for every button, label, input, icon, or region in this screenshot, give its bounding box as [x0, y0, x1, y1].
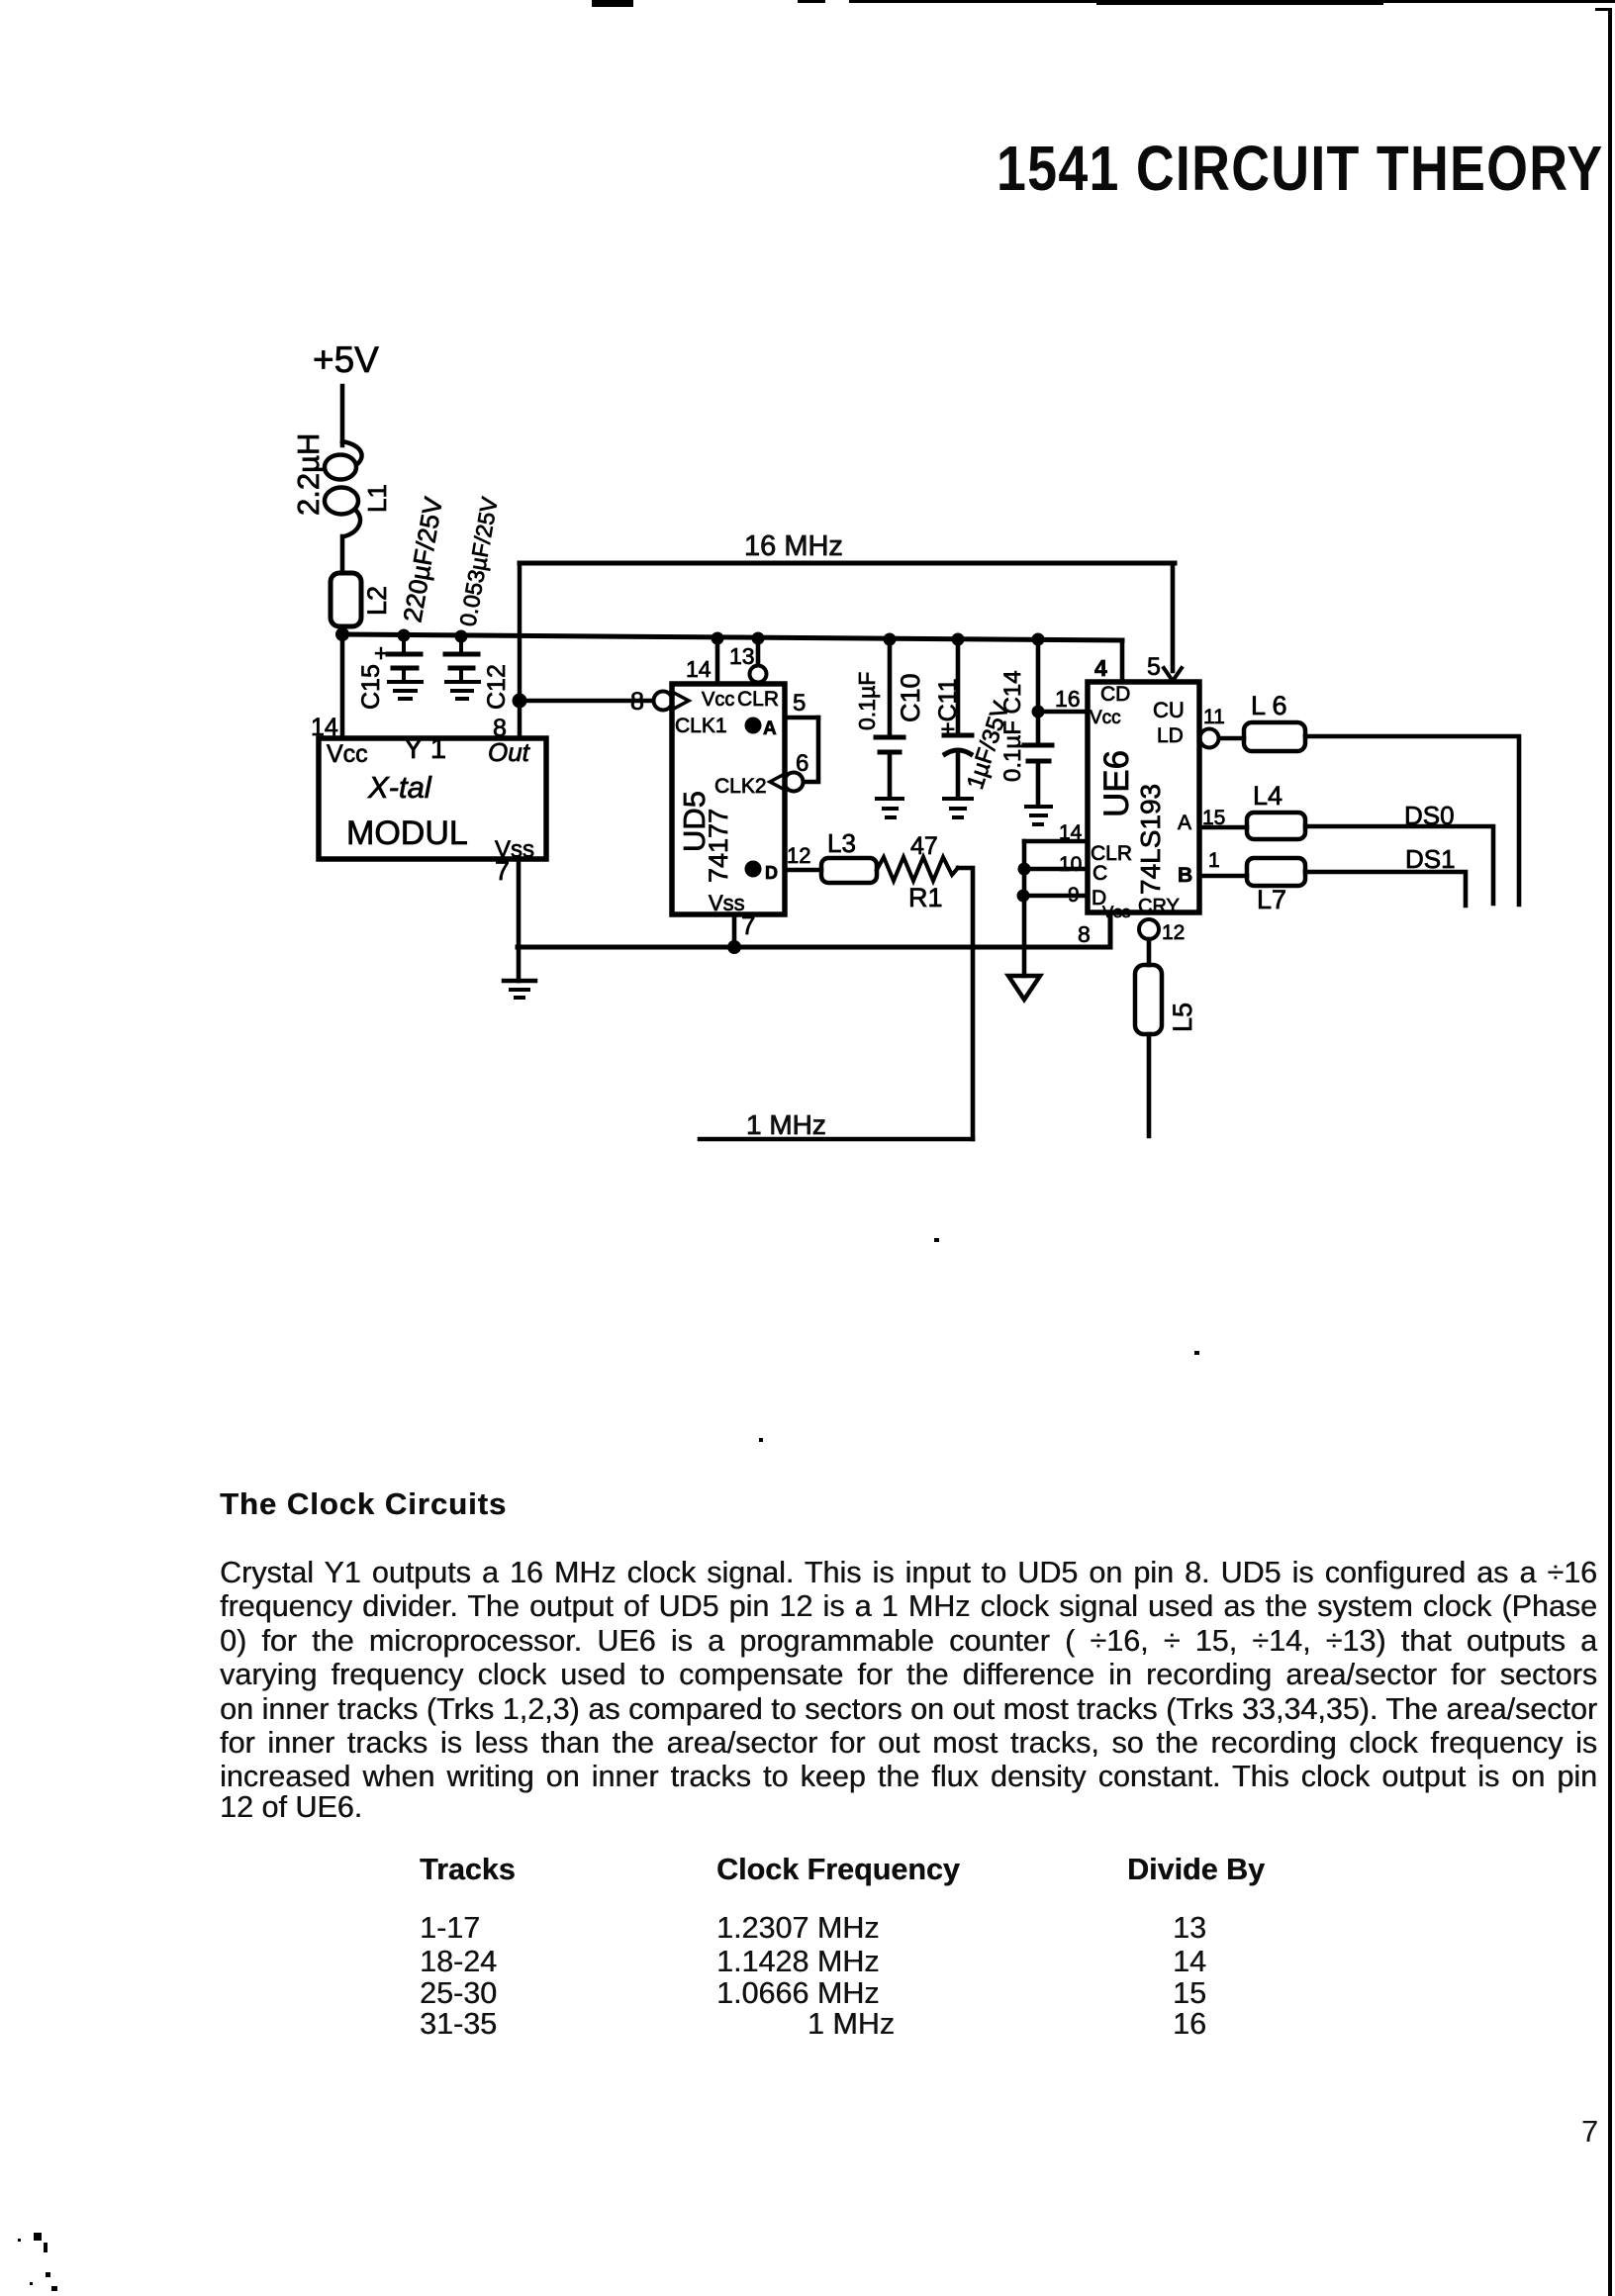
- svg-text:Vcc: Vcc: [1090, 708, 1121, 728]
- svg-text:R1: R1: [908, 883, 943, 912]
- wire Y1 Out vertical: [518, 563, 522, 738]
- pin 9 D: [1022, 884, 1088, 907]
- svg-text:7: 7: [495, 856, 510, 886]
- wire CLK1 feed: [520, 699, 653, 704]
- right page border line: [1608, 8, 1612, 2296]
- pin 7 label (Y1 Vss): [495, 856, 510, 886]
- svg-text:47: 47: [910, 832, 938, 860]
- pin 14 UE6 CLR: [1024, 821, 1088, 844]
- svg-text:Vcc: Vcc: [327, 740, 368, 768]
- svg-text:+C11: +C11: [934, 678, 962, 736]
- svg-text:L5: L5: [1168, 1003, 1197, 1032]
- table headers: [420, 1853, 516, 1887]
- wire CLR/C/D ground bus: [1022, 841, 1027, 976]
- node C15 tap: [398, 629, 411, 642]
- svg-text:L 6: L 6: [1251, 691, 1287, 720]
- page title: [997, 132, 1603, 205]
- svg-text:B: B: [1178, 864, 1192, 887]
- svg-text:5: 5: [793, 690, 806, 717]
- svg-text:CLR: CLR: [737, 688, 779, 711]
- svg-text:1 MHz: 1 MHz: [746, 1109, 826, 1140]
- svg-text:C15: C15: [357, 664, 385, 710]
- wire ground rail: [518, 912, 1110, 947]
- inductor L4: [1247, 781, 1305, 839]
- ground main: [504, 981, 535, 998]
- inductor L1 2.2uH: [291, 433, 392, 536]
- svg-text:D: D: [765, 863, 778, 883]
- svg-text:0.1µF: 0.1µF: [854, 672, 880, 730]
- wire 16 MHz line: [520, 561, 1175, 566]
- svg-text:11: 11: [1203, 706, 1225, 728]
- svg-text:8: 8: [630, 688, 644, 716]
- pin 12 CRY bubble: [1139, 919, 1185, 944]
- capacitor C11 1uF/35V: [934, 633, 1015, 818]
- capacitor C15 220uF/25V: [357, 494, 448, 710]
- svg-text:16 MHz: 16 MHz: [744, 530, 843, 562]
- svg-text:7: 7: [741, 910, 755, 940]
- wire L6 out: [1305, 736, 1519, 905]
- svg-text:12: 12: [1162, 921, 1185, 944]
- node: C14 / pin16 tee: [1032, 706, 1045, 718]
- ground triangle: [1008, 976, 1040, 1000]
- svg-text:Vcc: Vcc: [702, 689, 734, 711]
- svg-text:A: A: [763, 718, 777, 739]
- schematic: clock circuits: [0, 0, 1615, 1287]
- svg-text:L1: L1: [362, 484, 392, 513]
- IC UE6 74LS193: [1088, 682, 1199, 921]
- top edge scan marks: [592, 0, 633, 7]
- paragraph: [220, 1556, 1597, 1590]
- page number: [1581, 2114, 1598, 2150]
- node: Out / CLK1 tee: [513, 694, 527, 709]
- pin 8 UE6 Vss: [1078, 921, 1091, 947]
- svg-text:0.053µF/25V: 0.053µF/25V: [454, 495, 503, 628]
- svg-text:14: 14: [311, 714, 338, 741]
- wire +5V to L1: [340, 386, 345, 445]
- svg-text:C12: C12: [483, 664, 511, 710]
- svg-text:220µF/25V: 220µF/25V: [397, 494, 448, 624]
- wire L1 to L2: [340, 536, 345, 573]
- svg-text:1: 1: [1208, 849, 1220, 872]
- section heading: [220, 1486, 507, 1522]
- node: +5V rail junction: [335, 627, 349, 641]
- svg-text:5: 5: [1147, 653, 1161, 681]
- node UD5 Vss on rail: [727, 940, 741, 954]
- resistor R1 47: [877, 832, 958, 912]
- pin 1 B: [1199, 849, 1247, 876]
- pin 7 UD5 Vss: [734, 910, 755, 947]
- pin 14 UD5 Vcc: [686, 632, 724, 685]
- svg-text:L7: L7: [1257, 885, 1286, 914]
- pin 15 A: [1199, 807, 1247, 829]
- node on bus: [1018, 863, 1031, 876]
- svg-text:CRY: CRY: [1138, 896, 1180, 917]
- svg-text:12: 12: [787, 843, 810, 868]
- svg-text:Vss: Vss: [709, 891, 745, 915]
- inductor L3: [821, 828, 877, 883]
- net label DS1: [1405, 844, 1456, 874]
- svg-text:Vss: Vss: [1102, 903, 1130, 921]
- svg-text:MODUL: MODUL: [346, 814, 468, 852]
- svg-text:C: C: [1092, 862, 1107, 885]
- net label 1 MHz: [700, 1109, 973, 1140]
- pin 11 LD bubble: [1200, 706, 1245, 748]
- wire L7 to DS1: [1305, 872, 1466, 906]
- svg-text:8: 8: [493, 715, 507, 742]
- pin 10 C: [1024, 853, 1088, 876]
- pin 14 label (Y1 Vcc): [311, 714, 338, 741]
- pin 12 QD: [785, 843, 821, 870]
- capacitor C12: [445, 495, 511, 710]
- capacitor C10 0.1uF: [854, 633, 925, 818]
- svg-text:CD: CD: [1100, 683, 1130, 706]
- svg-text:CU: CU: [1153, 698, 1185, 722]
- svg-text:L3: L3: [827, 828, 856, 858]
- pin 8 CLK1 bubble: [630, 688, 689, 716]
- pin 8 label (Y1 Out): [493, 715, 507, 742]
- IC UD5 74177: [672, 684, 785, 915]
- pin 5 QA: [785, 690, 818, 717]
- inductor L6: [1244, 691, 1305, 751]
- wire +5V rail: [342, 634, 1122, 640]
- power net +5V: [313, 339, 379, 380]
- node C12 tap: [455, 630, 468, 643]
- svg-text:74177: 74177: [704, 809, 733, 883]
- pin 5 CU: [1147, 563, 1182, 681]
- node on bus: [1017, 890, 1030, 903]
- svg-text:C10: C10: [896, 673, 925, 722]
- svg-text:14: 14: [1059, 821, 1083, 844]
- svg-text:DS1: DS1: [1405, 844, 1456, 874]
- svg-text:LD: LD: [1157, 724, 1184, 747]
- svg-text:10: 10: [1059, 853, 1082, 876]
- inductor L7: [1247, 858, 1305, 914]
- svg-text:13: 13: [729, 643, 755, 669]
- svg-text:UE6: UE6: [1097, 750, 1136, 817]
- svg-text:9: 9: [1068, 884, 1080, 907]
- capacitor C14 0.1uF: [999, 633, 1052, 825]
- svg-text:DS0: DS0: [1404, 801, 1455, 830]
- svg-text:0.1µF C14: 0.1µF C14: [999, 670, 1026, 782]
- svg-text:16: 16: [1055, 686, 1081, 712]
- inductor L5: [1135, 939, 1197, 1136]
- svg-text:L2: L2: [362, 586, 392, 616]
- net label 16 MHz: [744, 530, 843, 562]
- svg-text:X-tal: X-tal: [367, 770, 432, 805]
- svg-text:8: 8: [1078, 921, 1091, 947]
- net label DS0: [1404, 801, 1455, 830]
- pin 13 UD5 CLR: [729, 632, 767, 683]
- svg-text:2.2µH: 2.2µH: [291, 433, 326, 516]
- crystal module Y1: [319, 733, 546, 863]
- svg-text:A: A: [1178, 812, 1191, 834]
- svg-text:+: +: [374, 640, 388, 667]
- inductor L2: [331, 573, 392, 626]
- bottom-left scan specks: [34, 2233, 42, 2241]
- wire QA to CLK2 feedback: [804, 717, 818, 782]
- svg-text:CLK2: CLK2: [714, 775, 767, 798]
- svg-text:14: 14: [686, 656, 712, 682]
- table rows: [420, 1911, 480, 1946]
- svg-text:Y 1: Y 1: [404, 733, 446, 765]
- svg-text:6: 6: [796, 750, 808, 777]
- svg-text:+5V: +5V: [313, 339, 379, 380]
- wire R1 to 1 MHz drop: [958, 868, 973, 1139]
- wire Y1 Vss to rail: [517, 859, 522, 981]
- wire L2 to Y1 Vcc pin 14: [340, 626, 345, 738]
- svg-text:L4: L4: [1253, 781, 1282, 811]
- svg-text:CLK1: CLK1: [675, 715, 727, 737]
- svg-text:15: 15: [1202, 807, 1225, 829]
- svg-text:74LS193: 74LS193: [1135, 784, 1166, 895]
- svg-text:4: 4: [1094, 655, 1107, 681]
- pin 6 CLK2 bubble: [770, 750, 808, 792]
- pin 16 UE6 Vcc: [1038, 686, 1088, 712]
- pin 4 CD: [1094, 640, 1122, 682]
- wire L4 to DS0: [1305, 826, 1493, 904]
